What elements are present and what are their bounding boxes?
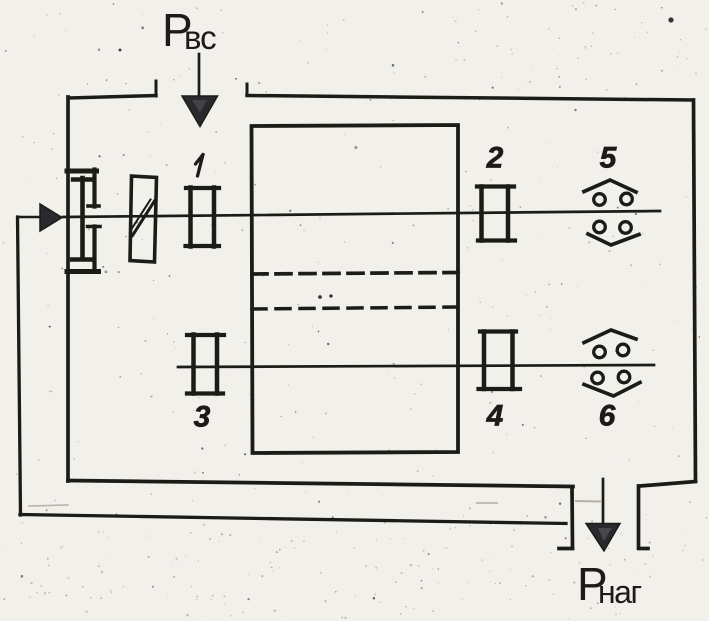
- svg-text:наг: наг: [598, 574, 641, 610]
- coupling upper inner tick: [88, 204, 99, 208]
- valve 5 ball lower-right: [620, 222, 632, 234]
- faint pencil mark in outlet channel: [576, 500, 600, 503]
- bearing 2 right vertical: [506, 187, 511, 241]
- bearing 4 bottom bar: [479, 387, 521, 391]
- casing left wall: [66, 97, 70, 481]
- suction bypass line vertical: [18, 217, 21, 515]
- valve 6 ball lower-left: [592, 372, 604, 384]
- coupling lower inner tick: [88, 225, 101, 229]
- svg-text:вс: вс: [184, 19, 216, 56]
- bearing 1 right vertical: [212, 188, 217, 247]
- outlet channel left wall: [570, 487, 574, 548]
- suction bypass line to arrow: [18, 216, 42, 219]
- casing bottom-right wall segment: [640, 482, 696, 487]
- lower shaft: [178, 365, 654, 367]
- outlet channel right wall: [637, 486, 641, 548]
- bearing 3 top bar: [187, 333, 224, 337]
- bearing 1 left vertical: [188, 188, 193, 247]
- inlet port left tick: [155, 81, 158, 96]
- inlet arrow shaft: [198, 54, 201, 96]
- svg-text:3: 3: [194, 401, 211, 434]
- valve group 5 bottom chevron: [588, 234, 639, 245]
- bearing 3 left vertical: [191, 335, 196, 394]
- valve 6 ball lower-right: [618, 371, 630, 383]
- coupling I-beam bottom serif: [72, 257, 93, 261]
- valve group 5 top chevron: [584, 180, 636, 192]
- bearing 1 bottom bar: [186, 244, 220, 248]
- filter hatch line 1: [133, 201, 155, 236]
- bearing 2 top bar: [477, 184, 514, 188]
- bearing 3 right vertical: [215, 335, 220, 394]
- suction bypass line bottom: [20, 515, 566, 524]
- drive input arrow head: [40, 204, 62, 231]
- casing bottom wall: [68, 481, 573, 487]
- bearing 4 left vertical: [482, 332, 487, 390]
- coupling I-beam stem: [80, 178, 85, 259]
- inlet port right tick: [246, 84, 249, 95]
- bearing 3 bottom bar: [187, 391, 223, 395]
- outlet channel left foot tick: [559, 547, 573, 551]
- scan blemish near inlet: [119, 49, 122, 52]
- faint pencil mark near outlet: [477, 502, 497, 504]
- svg-text:6: 6: [599, 400, 616, 433]
- piston dashed line lower: [252, 307, 457, 309]
- valve 5 ball lower-left: [594, 221, 606, 233]
- discharge arrow head: [586, 524, 620, 552]
- svg-text:2: 2: [486, 142, 504, 175]
- coupling lower bar: [67, 269, 99, 274]
- filter hatch line 2: [132, 200, 151, 230]
- piston dashed line upper: [252, 273, 457, 275]
- outlet channel right foot tick: [639, 547, 648, 551]
- cylinder block: [252, 125, 459, 453]
- casing right wall: [694, 100, 696, 481]
- coupling upper bar: [67, 169, 97, 174]
- coupling upper right vertical: [92, 170, 96, 207]
- casing top wall right segment: [247, 96, 693, 101]
- valve 5 ball upper-left: [594, 194, 606, 206]
- bearing 4 top bar: [480, 329, 516, 333]
- svg-text:5: 5: [600, 142, 618, 175]
- bearing 2 bottom bar: [478, 238, 515, 242]
- bearing 2 left vertical: [479, 187, 484, 241]
- coupling lower right vertical: [92, 227, 96, 272]
- casing top wall left segment: [69, 96, 156, 99]
- svg-text:4: 4: [486, 400, 504, 433]
- bearing 4 right vertical: [510, 332, 515, 390]
- smudge dots: [319, 296, 322, 299]
- label 1: [196, 155, 204, 177]
- discharge arrow shaft: [602, 479, 605, 524]
- bearing 1 top bar: [186, 186, 219, 190]
- label P_vs: [162, 4, 216, 56]
- coupling I-beam top serif: [73, 177, 94, 181]
- valve group 6 bottom chevron: [584, 383, 640, 397]
- valve 6 ball upper-left: [594, 346, 606, 358]
- inlet arrow head: [182, 96, 218, 127]
- valve 6 ball upper-right: [617, 344, 629, 356]
- faint pencil mark bottom left: [29, 505, 68, 506]
- upper shaft: [63, 211, 660, 217]
- label P_nag: [577, 558, 641, 610]
- scan blemish top right: [668, 17, 673, 22]
- valve group 6 top chevron: [584, 330, 636, 343]
- valve 5 ball upper-right: [621, 193, 633, 205]
- filter body: [130, 176, 157, 262]
